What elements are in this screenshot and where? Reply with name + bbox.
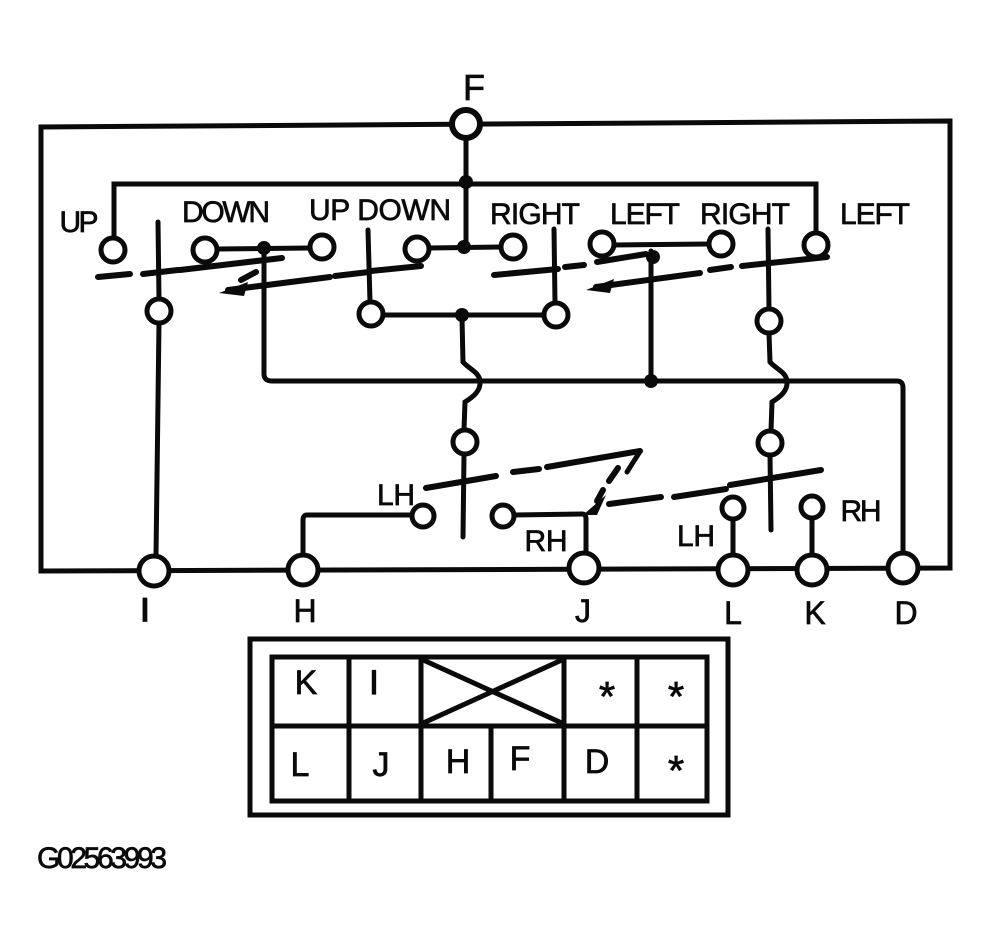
contact LEFT [590, 232, 614, 256]
node pole link junction [455, 308, 469, 322]
svg-text:L: L [291, 746, 310, 784]
linkage bar over lever3 [494, 269, 558, 275]
lever mirror select right [768, 229, 769, 309]
lever lower switch right [770, 455, 771, 530]
wire pole link [383, 313, 544, 318]
svg-text:*: * [668, 673, 684, 720]
wire lever1 to terminal I [156, 323, 159, 556]
lever mirror select left [554, 229, 555, 303]
contact DOWN [193, 238, 217, 262]
svg-text:H: H [446, 743, 471, 781]
node F feed junction [457, 240, 471, 254]
linkage bar over lever4 [742, 257, 827, 266]
linkage arrow mid [596, 273, 700, 287]
switch case outer border [41, 121, 950, 571]
contact LEFT far right [804, 233, 828, 257]
terminal J [569, 553, 599, 583]
linkage bar [371, 266, 421, 271]
svg-text:LH: LH [677, 520, 715, 553]
svg-text:RH: RH [525, 525, 568, 558]
contact lever1 pole [147, 299, 171, 323]
linkage lower dash diagonal 2 [597, 490, 603, 501]
contact UP second [310, 235, 334, 259]
terminal L [718, 555, 748, 585]
svg-text:RIGHT: RIGHT [700, 198, 790, 231]
lever window master left [158, 222, 159, 299]
connector view inner frame [272, 657, 707, 801]
svg-text:L: L [724, 595, 742, 631]
connector view outer frame [250, 639, 728, 815]
linkage dash 1 [98, 274, 130, 277]
terminal K [797, 555, 827, 585]
contact lever3 pole [544, 303, 568, 327]
node lower bus junction [644, 374, 658, 388]
node mirror junction [646, 250, 660, 264]
svg-text:H: H [293, 593, 316, 629]
wire UP2-DOWN2 pair [429, 247, 501, 248]
connector grid v2 [419, 657, 424, 801]
wire supply bus [114, 184, 816, 239]
wire mirror select drop [649, 251, 654, 378]
contact LH [412, 505, 434, 527]
wire K stem [810, 518, 815, 556]
svg-text:RH: RH [841, 495, 882, 528]
terminal D [888, 553, 918, 583]
wire DOWN to UP2 [217, 248, 310, 249]
svg-text:LEFT: LEFT [840, 198, 910, 231]
svg-text:K: K [295, 664, 318, 702]
svg-text:RIGHT: RIGHT [490, 198, 580, 231]
connector grid v1 [347, 657, 352, 801]
linkage bar left [180, 258, 282, 270]
terminal I [139, 556, 169, 586]
contact lever2 pole [359, 302, 383, 326]
wire center drop with hop [462, 318, 480, 430]
svg-text:F: F [510, 740, 531, 778]
linkage lower arrow up right [547, 451, 640, 467]
linkage dash over lever2 [335, 272, 369, 276]
contact RIGHT second [709, 232, 733, 256]
linkage dash [710, 267, 731, 270]
wire LH to terminal H [303, 515, 412, 555]
svg-text:J: J [373, 746, 390, 784]
linkage lower bar over lever e [426, 476, 496, 488]
svg-text:I: I [369, 664, 378, 702]
svg-text:K: K [804, 595, 825, 631]
connector grid v3 [562, 657, 567, 801]
svg-text:F: F [463, 67, 485, 108]
svg-text:J: J [575, 593, 591, 629]
svg-text:D: D [894, 595, 917, 631]
svg-text:*: * [599, 673, 615, 720]
connector blocked cavity X [421, 659, 564, 724]
node bus junction [459, 175, 473, 189]
linkage small dash [241, 272, 256, 280]
svg-text:I: I [141, 592, 150, 628]
contact above K [801, 496, 823, 518]
wire right drop with hop [769, 333, 787, 431]
terminal F [452, 110, 480, 138]
svg-text:LH: LH [377, 479, 415, 512]
linkage dash over lever1 [143, 270, 178, 274]
linkage lower dash diagonal [609, 468, 618, 481]
node junction below DOWN wire [257, 241, 271, 255]
contact UP [101, 238, 125, 262]
contact lever4 pole [757, 309, 781, 333]
linkage lower bar over lever f [730, 470, 821, 485]
contact UP of pair [405, 237, 429, 261]
linkage lower dash right [674, 489, 726, 497]
lever lower switch left [463, 454, 464, 537]
connector grid v4 [635, 657, 640, 801]
connector grid mid line [272, 724, 707, 729]
linkage dash [565, 265, 584, 267]
svg-text:G02563993: G02563993 [37, 842, 167, 875]
linkage lower dash right of J [609, 497, 661, 504]
wire junction drop to lower bus [264, 255, 903, 553]
wire L stem [731, 519, 736, 556]
svg-text:DOWN: DOWN [182, 196, 270, 229]
svg-text:UP DOWN: UP DOWN [309, 194, 451, 227]
svg-text:D: D [585, 743, 610, 781]
linkage bar under LEFT contact [597, 254, 646, 262]
connector grid v5 bottom only [489, 726, 494, 801]
svg-text:UP: UP [60, 206, 99, 239]
contact RH [492, 505, 514, 527]
contact lower switch right [758, 431, 782, 455]
wire RH to terminal J [514, 514, 586, 552]
linkage lower dash [513, 469, 539, 472]
svg-text:*: * [668, 747, 684, 794]
svg-text:LEFT: LEFT [610, 198, 680, 231]
contact lower switch left [453, 430, 477, 454]
contact DOWN of pair [501, 235, 525, 259]
linkage arrow left [228, 277, 330, 290]
contact above L [722, 497, 744, 519]
lever window master right [368, 230, 370, 302]
terminal H [288, 555, 318, 585]
wire F stem [464, 140, 469, 247]
wire LEFT-RIGHT pair [613, 244, 709, 245]
